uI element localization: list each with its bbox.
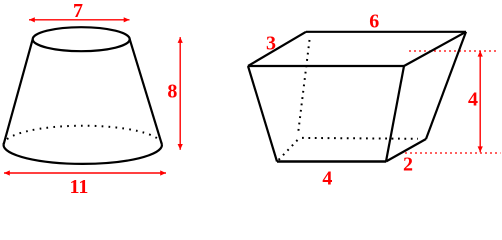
dimension arrow: lateral height (4) [478,51,483,152]
truncated cone: top ellipse [33,27,130,51]
frustum: bottom right edge F-G (2) [386,139,426,162]
frustum: top face edge D-A (3) [248,32,306,66]
dimension arrow: height (8) [178,37,183,150]
frustum: front left edge D-E [248,66,277,162]
dimension guide: top dotted red line [409,50,498,52]
frustum: top face edge C-D [248,65,404,67]
frustum: back right edge B-G [426,32,466,139]
svg-text:7: 7 [73,0,83,22]
svg-text:3: 3 [266,32,276,54]
svg-text:11: 11 [69,176,88,193]
frustum: top face edge B-C [404,32,466,66]
truncated cone: bottom front arc [4,145,163,164]
frustum: hidden bottom back edge H-G (dotted) [302,137,418,140]
frustum: front right edge C-F [386,66,404,162]
dimension arrow: bottom diameter (11) [4,170,166,175]
truncated cone: bottom back arc (hidden, dotted) [4,126,163,145]
truncated cone: left side wire [4,39,33,145]
frustum: hidden bottom left edge H-E (dotted) [278,140,298,161]
frustum: bottom front edge E-F (4) [277,160,386,162]
dimension arrow: top diameter (7) [29,17,130,22]
dimension guide: bottom dotted red line [405,152,501,154]
svg-text:2: 2 [403,153,413,175]
svg-text:8: 8 [167,80,177,102]
truncated cone: right side wire [130,39,162,145]
svg-text:6: 6 [369,11,379,33]
frustum: top face edge A-B (6) [306,31,466,33]
svg-text:4: 4 [468,89,478,111]
frustum: hidden edge A-H (dotted) [298,40,310,134]
svg-text:4: 4 [322,168,332,190]
